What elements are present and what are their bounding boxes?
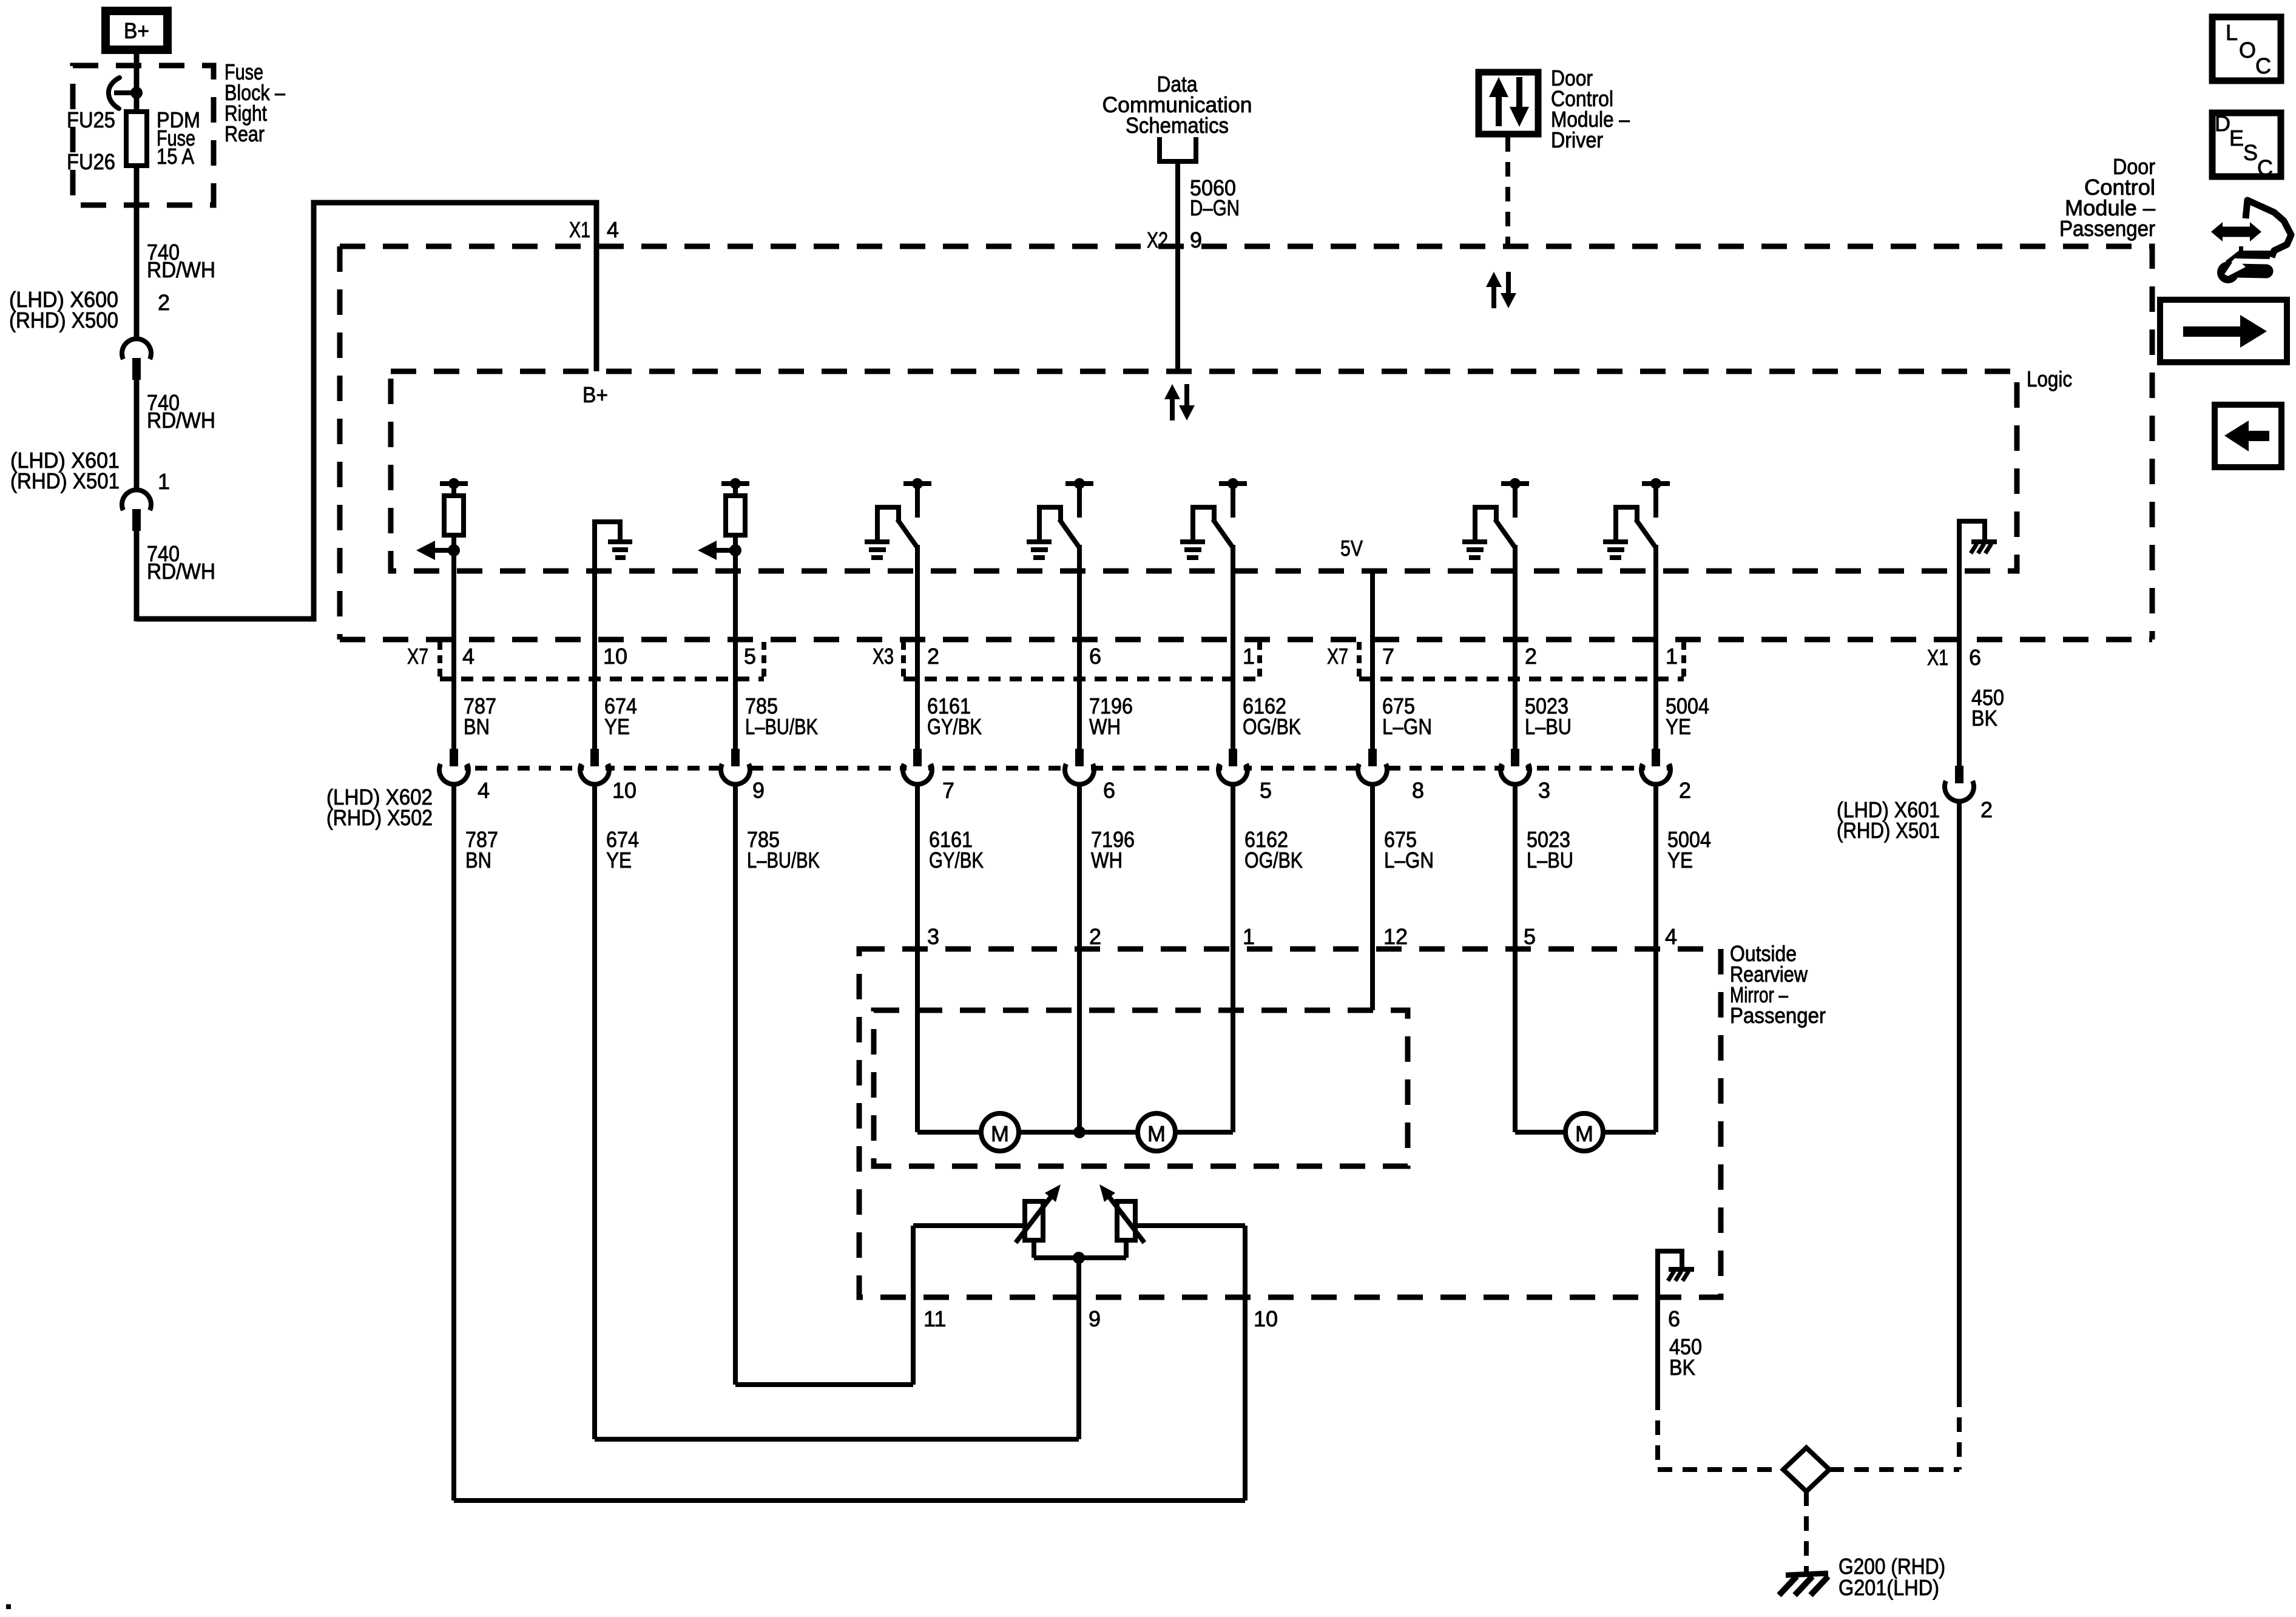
svg-text:5: 5 xyxy=(744,644,756,669)
svg-text:WH: WH xyxy=(1089,714,1121,739)
wire 5004 YE to mirror fold motor xyxy=(1653,783,1658,1132)
wire hook to junction xyxy=(114,90,137,95)
svg-text:10: 10 xyxy=(612,778,636,803)
bus hook symbol xyxy=(109,78,120,109)
svg-text:4: 4 xyxy=(462,644,474,669)
wire B+ to fuse xyxy=(134,54,140,114)
svg-text:OG/BK: OG/BK xyxy=(1244,848,1303,873)
svg-text:BK: BK xyxy=(1669,1355,1695,1380)
mirror motor/sensor sub box xyxy=(874,1010,1408,1166)
svg-text:Rear: Rear xyxy=(225,121,265,146)
icon connector repair (arrow + wrench) xyxy=(2211,200,2291,283)
junction dot at fuse feed xyxy=(130,87,143,99)
svg-text:D: D xyxy=(2215,111,2230,136)
wire 6162 OG/BK to mirror motor xyxy=(1231,783,1235,1132)
motor M1 xyxy=(981,1113,1019,1151)
wire sensor common to pin 9 xyxy=(1076,1258,1081,1439)
fuse FU25/FU26 PDM Fuse 15 A xyxy=(126,112,147,166)
inline connector X602 pin 10 xyxy=(580,749,609,785)
svg-text:X7: X7 xyxy=(407,644,428,669)
svg-text:YE: YE xyxy=(1666,714,1691,739)
wire right sensor to wiper bus xyxy=(1124,1240,1129,1258)
icon box arrow right xyxy=(2160,300,2287,362)
svg-text:GY/BK: GY/BK xyxy=(929,848,984,873)
svg-text:(RHD) X501: (RHD) X501 xyxy=(10,468,120,493)
svg-text:L–BU/BK: L–BU/BK xyxy=(747,848,820,873)
wire X601 down xyxy=(134,530,140,621)
power symbol B+ xyxy=(106,11,167,50)
Outside Rearview Mirror - Passenger box xyxy=(859,949,1721,1297)
wire 5023 L-BU module to X602 xyxy=(1513,545,1518,750)
junction dot sensor common xyxy=(1073,1252,1085,1264)
svg-text:O: O xyxy=(2239,38,2256,62)
svg-text:L–GN: L–GN xyxy=(1382,714,1432,739)
wire right sensor to mirror pin 10 xyxy=(1135,1223,1245,1228)
switch select on wire 5023 xyxy=(1462,478,1529,558)
svg-text:10: 10 xyxy=(1254,1306,1278,1331)
dashed wire mirror ground to splice xyxy=(1655,1396,1660,1470)
svg-text:(RHD) X500: (RHD) X500 xyxy=(9,308,118,333)
svg-text:OG/BK: OG/BK xyxy=(1243,714,1301,739)
svg-text:M: M xyxy=(991,1121,1009,1146)
svg-text:L–BU: L–BU xyxy=(1525,714,1572,739)
svg-text:6: 6 xyxy=(1103,778,1115,803)
wire 7196 WH to mirror motors common xyxy=(1077,783,1082,1132)
dashed ground bus xyxy=(1658,1467,1783,1472)
svg-text:BK: BK xyxy=(1971,706,1997,731)
dashed wire splice to ground xyxy=(1804,1491,1809,1572)
svg-text:X1: X1 xyxy=(569,217,590,242)
svg-text:6: 6 xyxy=(1089,644,1101,669)
page artifact dot xyxy=(6,1604,11,1609)
wire 674 YE X602 to mirror pin 9 xyxy=(592,783,597,1439)
wire mirror pin 11 to left sensor xyxy=(913,1223,1025,1228)
svg-text:2: 2 xyxy=(1980,797,1993,822)
icon box LOC xyxy=(2212,17,2281,81)
splice diamond xyxy=(1783,1448,1829,1491)
wire 5004 YE module to X602 xyxy=(1653,545,1658,750)
svg-text:YE: YE xyxy=(1667,848,1693,873)
svg-text:2: 2 xyxy=(1679,778,1691,803)
switch mirror up/down on wire 7196 xyxy=(1027,478,1093,558)
wire 5023 L-BU to mirror fold motor xyxy=(1513,783,1518,1132)
svg-text:5: 5 xyxy=(1524,924,1536,949)
icon box DESC xyxy=(2212,113,2281,177)
svg-text:WH: WH xyxy=(1091,848,1123,873)
svg-text:6: 6 xyxy=(1969,645,1981,670)
fuse block box Fuse Block - Right Rear xyxy=(73,66,214,205)
svg-text:YE: YE xyxy=(604,714,630,739)
Door Control Module - Passenger box xyxy=(340,246,2152,640)
svg-text:11: 11 xyxy=(923,1306,946,1331)
svg-text:M: M xyxy=(1147,1121,1166,1146)
bidirectional data arrows (logic) xyxy=(1164,384,1195,420)
mirror ground pin 6 xyxy=(1658,1251,1682,1396)
inline connector X601/X501 pin 2 (right) xyxy=(1945,766,1974,802)
inline connector X602 pin 4 xyxy=(439,749,468,785)
motor M2 xyxy=(1138,1113,1175,1151)
svg-text:9: 9 xyxy=(752,778,765,803)
svg-text:4: 4 xyxy=(1665,924,1677,949)
svg-text:FU25: FU25 xyxy=(67,107,115,132)
svg-text:2: 2 xyxy=(158,290,170,315)
svg-text:B+: B+ xyxy=(582,382,608,407)
wire 785 L-BU/BK X602 to mirror pin 11 xyxy=(733,783,738,1385)
wire 675 L-GN 5V to sensor block xyxy=(1370,783,1375,1010)
svg-text:L–GN: L–GN xyxy=(1384,848,1434,873)
connector X3 box (pins 2 6 1) xyxy=(901,642,906,679)
svg-text:C: C xyxy=(2255,53,2271,78)
dashed wire driver module to passenger module xyxy=(1505,137,1510,246)
svg-text:X2: X2 xyxy=(1147,228,1168,252)
svg-text:Driver: Driver xyxy=(1551,127,1603,152)
svg-text:D–GN: D–GN xyxy=(1190,195,1240,220)
svg-text:M: M xyxy=(1575,1121,1593,1146)
svg-text:(RHD) X501: (RHD) X501 xyxy=(1837,818,1940,843)
inline connector X602 pin 9 xyxy=(721,749,750,785)
inline connector X602 pin 2 xyxy=(1641,749,1670,785)
svg-text:X7: X7 xyxy=(1327,644,1348,669)
ground G200/G201 xyxy=(1786,1573,1828,1575)
wire X600 to X601 xyxy=(134,379,140,491)
svg-text:GY/BK: GY/BK xyxy=(927,714,982,739)
svg-text:L–BU/BK: L–BU/BK xyxy=(745,714,818,739)
svg-text:Passenger: Passenger xyxy=(1730,1003,1826,1028)
switch mirror left/right on wire 6161 xyxy=(865,478,931,558)
wire 6161 GY/BK to mirror motor xyxy=(915,783,920,1132)
wire 6161 GY/BK module to X602 xyxy=(915,545,920,750)
svg-text:X3: X3 xyxy=(873,644,894,669)
wire 6162 OG/BK module to X602 xyxy=(1231,545,1235,750)
inline connector X602 pin 8 xyxy=(1358,749,1387,785)
internal ground on wire 674 xyxy=(595,522,620,749)
wire 7196 WH module to X602 xyxy=(1077,545,1082,750)
motor M3 xyxy=(1565,1113,1603,1151)
svg-text:RD/WH: RD/WH xyxy=(147,257,215,282)
svg-text:4: 4 xyxy=(607,217,619,242)
switch mirror common on wire 6162 xyxy=(1180,478,1247,558)
icon box arrow left xyxy=(2215,405,2281,467)
svg-text:7: 7 xyxy=(942,778,954,803)
internal ground with hatches (pin X1-6) xyxy=(1959,521,1985,766)
wire 785 L-BU/BK module to X602 xyxy=(733,550,738,750)
svg-text:Schematics: Schematics xyxy=(1126,113,1229,138)
svg-text:2: 2 xyxy=(1525,644,1537,669)
svg-text:3: 3 xyxy=(1538,778,1550,803)
svg-text:2: 2 xyxy=(1089,924,1101,949)
junction dot motors common xyxy=(1073,1126,1086,1138)
motor M3 bus xyxy=(1515,1130,1565,1135)
svg-text:FU26: FU26 xyxy=(67,149,115,174)
svg-text:YE: YE xyxy=(606,848,632,873)
svg-text:Logic: Logic xyxy=(2027,366,2072,391)
svg-text:BN: BN xyxy=(465,848,491,873)
inline connector X602 pin 7 xyxy=(903,749,932,785)
svg-text:9: 9 xyxy=(1190,228,1202,252)
svg-text:7: 7 xyxy=(1382,644,1394,669)
wire 675 L-GN 5V module to X602 xyxy=(1370,571,1375,750)
svg-text:5: 5 xyxy=(1260,778,1272,803)
inline connector X602 pin 6 xyxy=(1065,749,1094,785)
wire 787 BN X602 to mirror pin 10 xyxy=(451,783,456,1501)
svg-text:12: 12 xyxy=(1383,924,1408,949)
svg-text:(RHD) X502: (RHD) X502 xyxy=(326,805,433,830)
svg-text:E: E xyxy=(2229,126,2244,150)
resistor (mirror select feedback) on wire 787 xyxy=(416,478,468,560)
svg-text:1: 1 xyxy=(1243,644,1255,669)
svg-text:BN: BN xyxy=(464,714,490,739)
wire 787 BN module to X602 xyxy=(451,550,456,750)
bidirectional data arrows (driver link) xyxy=(1486,272,1516,308)
svg-text:1: 1 xyxy=(1666,644,1678,669)
inline connector row X602/X502 dotted line xyxy=(454,766,1669,771)
svg-text:8: 8 xyxy=(1412,778,1424,803)
position sensor left (potentiometer) xyxy=(1025,1201,1043,1240)
wire 450 BK module to splice xyxy=(1957,800,1962,1393)
svg-text:Passenger: Passenger xyxy=(2059,216,2155,241)
wire sensor wiper bus xyxy=(1034,1255,1126,1260)
svg-text:1: 1 xyxy=(1243,924,1255,949)
connector X7 box (pins 4 10 5) xyxy=(437,642,442,679)
Logic box xyxy=(391,371,2017,571)
motor M horizontal bus xyxy=(917,1130,981,1135)
wire jog feed to module pin X1-4 xyxy=(137,203,596,619)
inline connector X602 pin 3 xyxy=(1501,749,1530,785)
svg-text:L–BU: L–BU xyxy=(1527,848,1573,873)
svg-text:4: 4 xyxy=(478,778,490,803)
svg-text:5V: 5V xyxy=(1340,536,1363,561)
Door Control Module - Driver box xyxy=(1479,72,1538,134)
svg-text:B+: B+ xyxy=(124,18,149,43)
svg-text:C: C xyxy=(2257,155,2273,180)
svg-text:S: S xyxy=(2243,140,2258,165)
svg-text:10: 10 xyxy=(603,644,627,669)
svg-text:3: 3 xyxy=(927,924,939,949)
switch select on wire 5004 xyxy=(1603,478,1670,558)
svg-text:9: 9 xyxy=(1089,1306,1101,1331)
resistor on wire 785 xyxy=(698,478,749,560)
wire 5060 D-GN serial data xyxy=(1175,161,1180,371)
svg-text:2: 2 xyxy=(927,644,939,669)
svg-text:RD/WH: RD/WH xyxy=(147,559,215,584)
svg-text:L: L xyxy=(2226,20,2238,45)
svg-text:G201(LHD): G201(LHD) xyxy=(1838,1575,1939,1600)
wire fuse to connector X600 xyxy=(134,166,140,340)
connector X7 box (pins 7 2 1) xyxy=(1357,642,1362,679)
svg-text:X1: X1 xyxy=(1927,645,1948,670)
svg-text:6: 6 xyxy=(1668,1306,1680,1331)
svg-text:RD/WH: RD/WH xyxy=(147,408,215,433)
driver box up/down arrows xyxy=(1489,77,1508,97)
inline connector X602 pin 5 xyxy=(1218,749,1248,785)
wire left sensor to wiper bus xyxy=(1032,1240,1036,1258)
svg-text:15 A: 15 A xyxy=(157,144,194,169)
svg-text:1: 1 xyxy=(158,469,170,494)
position sensor right (potentiometer) xyxy=(1117,1201,1135,1240)
